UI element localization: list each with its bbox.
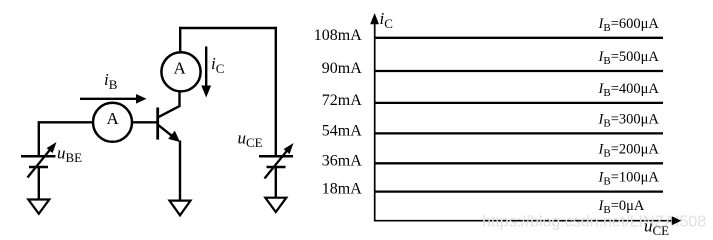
- x-axis uCE: [374, 220, 674, 222]
- ammeter A1: [93, 103, 132, 142]
- wire: A2 bottom to collector: [178, 91, 180, 108]
- svg-text:72mA: 72mA: [322, 92, 362, 109]
- svg-text:uBE: uBE: [57, 144, 82, 166]
- svg-text:A: A: [173, 59, 186, 78]
- svg-text:IB=600μA: IB=600μA: [598, 16, 660, 34]
- curve IB=300uA: [375, 132, 663, 134]
- curve IB=400uA: [375, 102, 663, 104]
- svg-text:IB=400μA: IB=400μA: [598, 81, 660, 99]
- svg-text:108mA: 108mA: [314, 27, 362, 44]
- svg-text:36mA: 36mA: [322, 152, 362, 169]
- wire: base (A1 to transistor): [132, 121, 157, 123]
- svg-text:IB=100μA: IB=100μA: [598, 170, 660, 188]
- ground (emitter): [170, 201, 191, 216]
- wire: top horizontal (A2 to uCE branch): [179, 27, 277, 29]
- current arrow iC: [201, 47, 211, 98]
- ground (uBE): [28, 200, 49, 214]
- svg-text:IB=500μA: IB=500μA: [598, 49, 660, 67]
- svg-text:90mA: 90mA: [322, 60, 362, 77]
- svg-text:iC: iC: [211, 54, 224, 76]
- y-axis iC: [370, 13, 379, 222]
- curve IB=600uA: [375, 37, 663, 39]
- svg-text:18mA: 18mA: [322, 181, 362, 198]
- curve IB=200uA: [375, 162, 663, 164]
- wire: A2 top lead: [179, 27, 181, 53]
- wire: uBE to ground: [38, 167, 40, 200]
- svg-text:uCE: uCE: [238, 129, 263, 151]
- current arrow iB: [80, 94, 147, 104]
- svg-text:IB=300μA: IB=300μA: [598, 111, 660, 129]
- svg-text:iC: iC: [380, 9, 393, 31]
- ammeter A2: [161, 52, 200, 91]
- source uCE (adjustable): [259, 143, 294, 179]
- svg-text:iB: iB: [104, 70, 118, 92]
- wire: A1 left to uBE branch: [39, 122, 93, 157]
- svg-text:54mA: 54mA: [322, 122, 362, 139]
- x-axis arrowhead: [672, 216, 682, 225]
- source uBE (adjustable): [21, 142, 57, 178]
- svg-text:IB=200μA: IB=200μA: [598, 141, 660, 159]
- transistor Q1 (NPN): [158, 106, 180, 142]
- wire: emitter to ground: [179, 141, 181, 202]
- wire: uCE top lead: [275, 27, 277, 157]
- curve IB=500uA: [375, 70, 663, 72]
- svg-text:A: A: [107, 109, 120, 128]
- curve IB=100uA: [375, 190, 663, 192]
- wire: uCE to ground: [275, 167, 277, 199]
- ground (uCE): [265, 198, 286, 212]
